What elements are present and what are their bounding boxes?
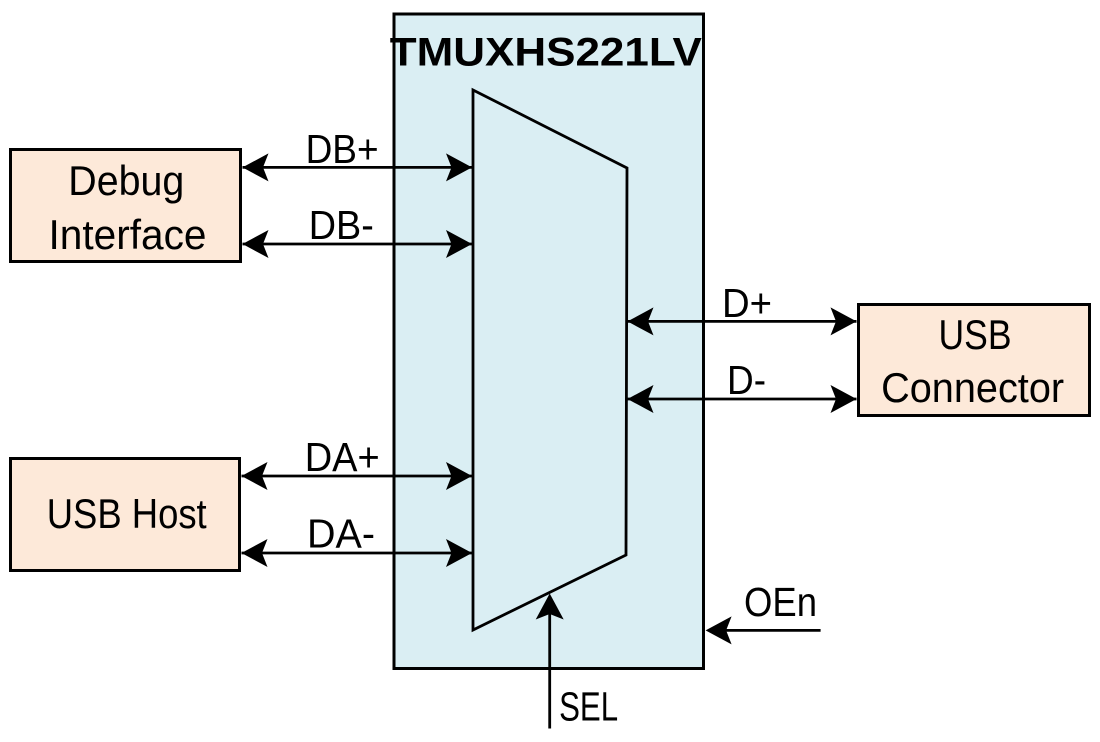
svg-text:DB-: DB-	[309, 202, 374, 248]
box Debug Interface	[11, 150, 241, 262]
wire DA- (double arrow)	[242, 539, 473, 567]
label DA-	[307, 511, 375, 557]
mux trapezoid	[473, 90, 627, 630]
wire SEL (arrow up into mux)	[536, 594, 564, 729]
svg-text:USB: USB	[939, 311, 1012, 358]
box USB Host	[11, 459, 240, 571]
svg-text:DB+: DB+	[306, 126, 379, 172]
label DA+	[305, 434, 380, 480]
label D+	[722, 280, 772, 326]
wire DB- (double arrow)	[243, 230, 473, 258]
block U1 TMUXHS221LV outline	[394, 14, 704, 669]
label DB-	[309, 202, 374, 248]
label DB+	[306, 126, 379, 172]
svg-text:Connector: Connector	[881, 364, 1064, 411]
label OEn	[744, 579, 817, 625]
label SEL	[559, 683, 618, 729]
svg-text:DA-: DA-	[307, 511, 375, 557]
svg-text:Interface: Interface	[49, 211, 207, 258]
box USB Connector	[859, 305, 1090, 416]
svg-text:D+: D+	[722, 280, 772, 326]
label D-	[727, 357, 766, 403]
wire DA+ (double arrow)	[242, 462, 473, 490]
wire D+ (double arrow)	[628, 307, 857, 335]
wire OEn (arrow into right side of block)	[706, 616, 821, 644]
label TMUXHS221LV	[390, 31, 702, 75]
svg-text:DA+: DA+	[305, 434, 380, 480]
svg-text:SEL: SEL	[559, 683, 618, 729]
wire DB+ (double arrow)	[243, 153, 473, 181]
svg-text:Debug: Debug	[68, 157, 184, 204]
svg-text:USB Host: USB Host	[47, 490, 207, 537]
svg-text:TMUXHS221LV: TMUXHS221LV	[390, 31, 702, 75]
svg-text:OEn: OEn	[744, 579, 817, 625]
wire D- (double arrow)	[628, 385, 857, 413]
svg-text:D-: D-	[727, 357, 766, 403]
